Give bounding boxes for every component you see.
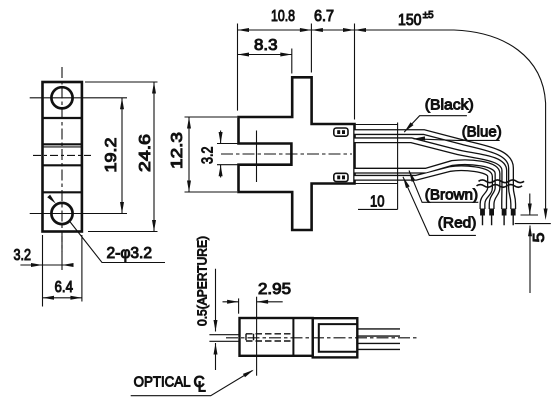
dimension 10 reference lines	[355, 123, 398, 210]
side view: wires	[357, 329, 400, 350]
dimension 2.95 extension line	[238, 298, 240, 313]
svg-text:12.3: 12.3	[169, 132, 186, 169]
dimension 24.6 line	[153, 82, 155, 232]
hole top centerline	[30, 97, 127, 99]
svg-text:10: 10	[370, 194, 385, 211]
dimension 24.6 extension lines	[85, 82, 158, 232]
dimension 19.2 line	[121, 98, 123, 214]
wire W1 (black lead)	[355, 132, 514, 209]
crimp terminal upper	[334, 128, 348, 136]
side view: aperture slit lines	[209, 335, 239, 342]
wire W3 (brown lead)	[355, 162, 498, 209]
dimension 3.2 extension lines	[43, 235, 82, 307]
dimension 0.5 arrows	[215, 269, 217, 370]
svg-text:5: 5	[531, 233, 548, 243]
svg-text:10.8: 10.8	[271, 8, 295, 25]
label 2-dia3.2 leader	[70, 222, 165, 263]
svg-text:150: 150	[398, 12, 422, 29]
dimension 8.3 line	[238, 54, 292, 56]
side view: main body	[240, 318, 313, 356]
svg-text:(Black): (Black)	[425, 96, 474, 113]
label (Black) leader	[404, 116, 467, 132]
svg-text:3.2: 3.2	[200, 147, 217, 165]
svg-text:L: L	[198, 380, 206, 396]
dimension 2.95 arrows	[223, 301, 283, 303]
hole bottom circle	[51, 203, 72, 224]
svg-text:3.2: 3.2	[14, 247, 32, 264]
svg-text:24.6: 24.6	[137, 134, 154, 172]
dimension 12.3 line	[188, 117, 190, 192]
label (Red) leader	[403, 177, 476, 236]
svg-text:0.5(APERTURE): 0.5(APERTURE)	[196, 236, 210, 326]
svg-text:±5: ±5	[423, 10, 434, 21]
top view: horizontal centerline	[221, 153, 352, 155]
side view: optical axis vertical	[256, 297, 258, 376]
dimension 3.2 line	[20, 264, 72, 266]
crimp terminal lower	[334, 173, 348, 181]
label (Blue) leader	[414, 139, 500, 141]
svg-text:2.95: 2.95	[258, 281, 291, 298]
hole bottom centerline	[30, 213, 127, 215]
side view: hidden aperture dashed lines	[246, 334, 291, 341]
front view: mounting plate outline	[43, 82, 82, 232]
wire cores (white)	[355, 132, 514, 209]
svg-text:6.7: 6.7	[314, 8, 334, 25]
dimension chain line with 150 curve	[238, 30, 546, 213]
svg-text:6.4: 6.4	[55, 279, 74, 296]
side view: end cap inner	[319, 324, 358, 352]
top view: sensor body outline	[239, 77, 355, 230]
wire W4 (red lead)	[355, 168, 491, 209]
bare conductor ends	[483, 216, 514, 226]
dimension 3.2 slot extension lines	[217, 144, 238, 165]
front view: vertical centerline	[61, 67, 63, 252]
label OPTICAL CL leader	[131, 371, 253, 396]
svg-text:(Blue): (Blue)	[462, 124, 502, 141]
svg-text:OPTICAL: OPTICAL	[134, 374, 191, 391]
wire insulation ends	[480, 209, 485, 216]
front view: segment divider lines	[43, 118, 82, 192]
side view: end cap outer	[313, 318, 358, 357]
hole top circle	[51, 87, 72, 108]
dimension 5 marks	[515, 194, 551, 294]
svg-text:(Red): (Red)	[438, 215, 477, 232]
label (Brown) leader	[409, 171, 478, 203]
dimension 6.4 line	[43, 297, 82, 299]
dimension chain extension lines	[238, 24, 355, 120]
dimension 3.2 slot arrows	[220, 131, 222, 178]
top view: optical axis line	[256, 131, 258, 183]
svg-text:2-φ3.2: 2-φ3.2	[107, 245, 153, 262]
svg-text:8.3: 8.3	[254, 37, 278, 54]
cable break wavy lines	[479, 180, 525, 183]
svg-text:19.2: 19.2	[103, 138, 120, 173]
svg-text:(Brown): (Brown)	[425, 187, 478, 204]
front view: mid horizontal centerline	[33, 154, 91, 156]
dimension 12.3 extension lines	[185, 117, 238, 192]
side view: body divider	[292, 318, 294, 356]
wire W2 (blue lead)	[355, 140, 505, 209]
side view: optical centerline	[226, 337, 419, 339]
